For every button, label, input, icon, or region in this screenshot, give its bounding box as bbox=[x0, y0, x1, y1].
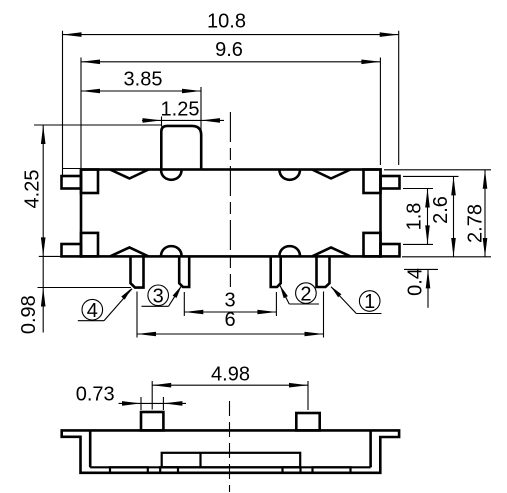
svg-text:6: 6 bbox=[224, 309, 235, 331]
side tab bottom-right bbox=[381, 244, 400, 256]
svg-text:3.85: 3.85 bbox=[124, 69, 163, 91]
side tab top-right bbox=[381, 176, 400, 189]
detent triangle bottom-right bbox=[312, 247, 351, 256]
dimension 3.85 bbox=[81, 69, 201, 135]
side view foot pad A bbox=[110, 467, 148, 473]
side view foot pad B bbox=[160, 467, 178, 473]
side view base plate line bbox=[90, 466, 370, 468]
rivet semicircle top-right bbox=[279, 170, 300, 180]
pin label 1 bbox=[331, 286, 382, 313]
pin 4 lead bbox=[131, 256, 144, 287]
corner notch top-left bbox=[81, 170, 98, 194]
dimension 0.73 bbox=[76, 384, 186, 410]
side view right bump bbox=[296, 413, 319, 430]
side tab top-left bbox=[62, 176, 82, 189]
detent triangle top-right bbox=[312, 170, 351, 179]
dimension 4.98 bbox=[152, 363, 308, 410]
pin 2 lead bbox=[271, 256, 281, 287]
svg-text:1.25: 1.25 bbox=[161, 99, 200, 121]
svg-text:2.6: 2.6 bbox=[430, 196, 452, 224]
svg-text:1.8: 1.8 bbox=[403, 203, 425, 231]
dimension 9.6 bbox=[81, 39, 380, 170]
side view inner contact box bbox=[162, 453, 301, 468]
dimension 0.98 bbox=[18, 256, 131, 334]
rivet semicircle top-left bbox=[161, 170, 182, 180]
corner notch bottom-left bbox=[81, 233, 98, 257]
pin label 2 bbox=[280, 283, 319, 305]
connector line top-left tab bbox=[62, 168, 81, 170]
svg-text:2: 2 bbox=[300, 283, 311, 305]
dimension 0.4 bbox=[404, 268, 438, 308]
svg-text:2.78: 2.78 bbox=[465, 204, 487, 243]
pin 3 lead bbox=[179, 256, 189, 287]
side view left bump bbox=[141, 412, 163, 430]
dimension 1.25 bbox=[142, 99, 224, 127]
slider knob bbox=[161, 126, 201, 170]
svg-text:9.6: 9.6 bbox=[215, 39, 243, 61]
dimension 2.78 bbox=[384, 170, 491, 257]
rivet semicircle bottom-left bbox=[161, 246, 182, 256]
dimension 2.6 bbox=[402, 176, 491, 257]
detent triangle bottom-left bbox=[110, 247, 149, 256]
pin 1 lead bbox=[317, 256, 330, 287]
svg-text:0.73: 0.73 bbox=[76, 384, 115, 406]
svg-text:1: 1 bbox=[364, 291, 375, 313]
dimension 4.25 bbox=[21, 125, 161, 256]
side view outline bbox=[62, 430, 399, 472]
corner notch top-right bbox=[364, 170, 381, 194]
side tab bottom-left bbox=[62, 244, 82, 256]
dimension 6 bbox=[137, 292, 324, 338]
svg-text:0.98: 0.98 bbox=[18, 295, 40, 334]
switch body outline bbox=[81, 170, 381, 257]
dimension 3 bbox=[184, 290, 276, 317]
side view inner wall right bbox=[369, 430, 372, 467]
pin label 4 bbox=[78, 288, 132, 322]
svg-text:0.4: 0.4 bbox=[404, 268, 426, 296]
svg-text:10.8: 10.8 bbox=[207, 11, 246, 33]
dimension 10.8 bbox=[63, 11, 399, 176]
rivet semicircle bottom-right bbox=[279, 246, 300, 256]
dimension 1.8 bbox=[403, 189, 433, 245]
centerline side view bbox=[229, 401, 231, 492]
side view inner wall left bbox=[89, 430, 92, 467]
pin label 3 bbox=[142, 285, 182, 308]
centerline main view bbox=[229, 112, 231, 287]
side view foot pad D bbox=[313, 467, 351, 473]
svg-text:3: 3 bbox=[153, 286, 164, 308]
svg-text:4: 4 bbox=[87, 300, 98, 322]
detent triangle top-left bbox=[110, 170, 149, 179]
svg-text:4.98: 4.98 bbox=[211, 363, 250, 385]
svg-text:4.25: 4.25 bbox=[21, 170, 43, 209]
corner notch bottom-right bbox=[364, 233, 381, 257]
side view foot pad C bbox=[283, 467, 301, 473]
